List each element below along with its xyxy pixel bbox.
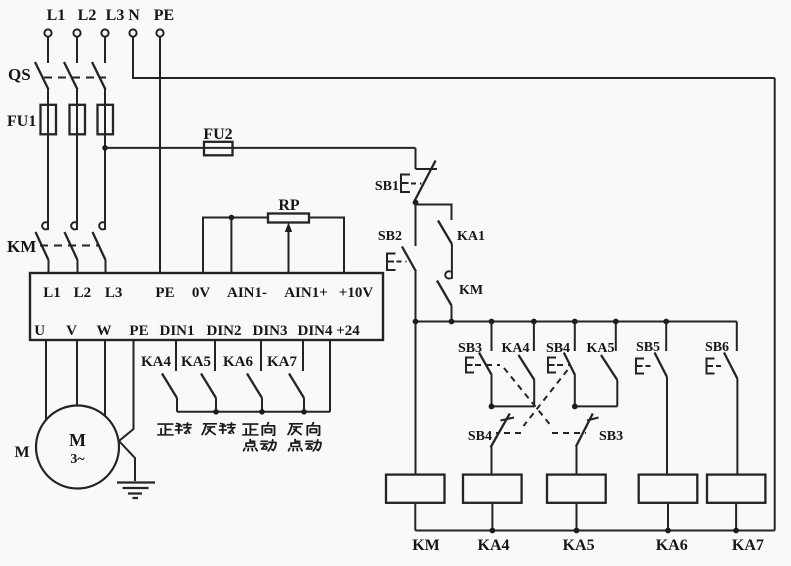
pushbutton SB5 blade (NO) (655, 353, 668, 378)
svg-text:KA5: KA5 (181, 354, 211, 370)
wire KM coil branch (415, 322, 417, 475)
wire KM pole 1 to box (48, 260, 50, 273)
contactor KM pole 3 fixed contact arc (99, 222, 104, 229)
junction bus at KA5 (613, 319, 619, 325)
SB3 interlock dashed link horizontal (475, 364, 500, 366)
svg-text:AIN1+: AIN1+ (284, 285, 328, 301)
node L1 supply terminal (44, 29, 51, 36)
wire L3 terminal to QS (104, 37, 106, 63)
svg-text:QS: QS (8, 65, 31, 84)
ground symbol (117, 483, 155, 499)
RP wiper arrow head (285, 223, 292, 233)
svg-text:SB4: SB4 (468, 429, 492, 444)
svg-text:L3: L3 (106, 7, 125, 24)
wire RP wiper to AIN1+ terminal (288, 231, 290, 273)
wire SB1 to SB2 (415, 203, 417, 247)
SB4 interlock dashed tail (496, 432, 521, 434)
wire SB3 NC to KA5 coil (576, 447, 578, 475)
junction below SB1 (413, 200, 419, 206)
svg-text:PE: PE (154, 7, 174, 24)
pushbutton SB4 NC lower blade (491, 414, 510, 448)
SB4 interlock dashed diagonal (524, 370, 568, 426)
wire KA4 coil to bottom line (491, 503, 493, 531)
label 反向 reverse (288, 424, 302, 435)
contactor KM pole 2 blade (65, 232, 78, 260)
wire L3 junction to FU2 to control rail (105, 147, 416, 149)
svg-text:PE: PE (129, 323, 148, 339)
svg-text:KA4: KA4 (478, 537, 510, 554)
wire PE bottom to motor frame and ground (119, 340, 135, 481)
wire KM coil to bottom line (414, 503, 416, 531)
wire SB3 to join node (491, 375, 493, 406)
pushbutton SB4 blade (NO) (564, 353, 575, 376)
SB4 interlock dashed link horizontal (557, 364, 570, 366)
wire control rail down to SB1 (415, 148, 417, 169)
wire KA4 contact to common (176, 398, 178, 412)
wire DIN3 stub (260, 340, 262, 371)
svg-text:RP: RP (278, 197, 300, 214)
pushbutton SB2 actuator E (387, 254, 396, 271)
svg-text:FU2: FU2 (203, 126, 232, 143)
wire SB3 stub (491, 322, 493, 352)
wire SB4 to join node (574, 375, 576, 406)
pushbutton SB4 actuator E (548, 358, 556, 373)
contact KA4 blade (162, 374, 177, 399)
wire V to motor (76, 340, 78, 406)
fuse FU1 pole 3 (98, 105, 114, 135)
pushbutton SB1 fixed contact bar (416, 168, 438, 170)
pushbutton SB3 actuator E (466, 358, 474, 373)
contact KA6 blade (247, 374, 262, 399)
junction KA6 coil on bottom line (665, 528, 671, 534)
wire through FU1 pole 2 to KM (76, 105, 78, 230)
svg-text:SB2: SB2 (378, 229, 402, 244)
motor M 3~ (36, 406, 119, 489)
wire SB6 to KA7 coil (736, 379, 738, 475)
svg-text:L2: L2 (74, 285, 92, 301)
junction bus at KA4 (531, 319, 537, 325)
svg-text:KA4: KA4 (502, 341, 530, 356)
node N supply terminal (129, 29, 136, 36)
pushbutton SB1 actuator E (401, 175, 410, 193)
wire QS to FU1 pole 1 (47, 90, 49, 106)
wire U to motor (45, 340, 47, 420)
pushbutton SB6 blade (NO) (724, 353, 737, 379)
svg-text:SB6: SB6 (705, 340, 729, 355)
SB6 actuator dashed link (716, 365, 725, 367)
wire bottom return line (415, 530, 774, 532)
junction bus at KM aux (449, 319, 455, 325)
wire KA7 coil to bottom line (735, 503, 737, 531)
svg-text:KA5: KA5 (587, 341, 615, 356)
contactor KM aux blade (437, 281, 452, 306)
junction RP left wire to AIN1- (229, 215, 235, 221)
junction KA7 coil on bottom line (733, 528, 739, 534)
contact KA7 blade (289, 374, 304, 399)
svg-text:KA1: KA1 (457, 229, 485, 244)
junction bus at SB5 (663, 319, 669, 325)
wire KA5 contact to common (215, 398, 217, 412)
svg-text:SB5: SB5 (636, 340, 660, 355)
svg-text:SB4: SB4 (546, 341, 570, 356)
wire KA6 contact to common (261, 398, 263, 412)
wire SB2 to bus (415, 272, 417, 322)
QS linkage dashed line (44, 77, 106, 79)
SB1 actuator dashed link (411, 183, 422, 185)
wire DIN2 stub (214, 340, 216, 371)
wire branch to KA1 (416, 205, 452, 221)
coil KM (386, 475, 445, 503)
svg-text:L3: L3 (105, 285, 123, 301)
svg-text:M: M (14, 444, 29, 461)
svg-text:DIN1: DIN1 (159, 323, 194, 339)
svg-text:L2: L2 (78, 7, 97, 24)
wire W to motor (104, 340, 106, 416)
svg-text:KA5: KA5 (563, 537, 595, 554)
contact KA1 blade (438, 221, 452, 245)
junction KA4 coil on bottom line (490, 528, 496, 534)
wire PE terminal down to converter box (159, 37, 161, 273)
contact KA5 blade (201, 374, 216, 399)
contact KA5 parallel blade (601, 355, 617, 380)
pushbutton SB6 actuator E (707, 359, 715, 374)
svg-text:KM: KM (459, 283, 483, 298)
junction bus at SB4 (572, 319, 578, 325)
wire N terminal down and across to right rail (133, 37, 775, 78)
wire join SB4-KA5 (575, 405, 618, 407)
svg-text:DIN4: DIN4 (297, 323, 333, 339)
wire KA1 to KM aux (451, 244, 453, 279)
svg-text:SB3: SB3 (599, 429, 623, 444)
wire RP left end to 0V terminal (203, 218, 268, 274)
label 反转 reverse run (202, 424, 216, 435)
wire KM aux to bus (451, 306, 453, 322)
wire KA5 to join node (616, 380, 618, 406)
contactor KM pole 3 blade (93, 232, 106, 260)
switch QS pole 2 blade (64, 62, 78, 90)
svg-text:FU1: FU1 (7, 113, 36, 130)
svg-text:KA7: KA7 (267, 354, 298, 370)
SB5 actuator dashed link (646, 365, 655, 367)
SB3 NC fixed contact bar (587, 418, 599, 421)
wire KA6 coil to bottom line (667, 503, 669, 531)
wire QS to FU1 pole 3 (104, 90, 106, 106)
svg-text:V: V (66, 323, 77, 339)
potentiometer RP body (268, 214, 309, 223)
contactor KM pole 1 fixed contact arc (42, 222, 47, 229)
svg-text:KM: KM (7, 237, 36, 256)
svg-text:0V: 0V (192, 285, 211, 301)
coil KA4 (463, 475, 522, 503)
svg-text:SB1: SB1 (375, 179, 399, 194)
converter box U1 (30, 273, 383, 340)
wire N right rail down (774, 78, 776, 531)
junction KA5 contact on common (213, 409, 219, 415)
junction SB4-KA5 node (572, 404, 578, 410)
wire contact common to +24 (177, 411, 330, 413)
svg-text:L1: L1 (47, 7, 66, 24)
SB3 interlock dashed diagonal (504, 368, 552, 427)
junction KA5 coil on bottom line (574, 528, 580, 534)
wire L1 terminal to QS (47, 37, 49, 63)
contact KA4 parallel blade (519, 355, 535, 380)
contactor KM pole 1 blade (36, 232, 49, 260)
wire join SB3-KA4 (492, 405, 535, 407)
node L3 supply terminal (101, 29, 108, 36)
SB3 interlock dashed tail (552, 432, 586, 434)
wire QS to FU1 pole 2 (76, 90, 78, 106)
svg-text:KA7: KA7 (732, 537, 764, 554)
switch QS pole 1 blade (35, 62, 49, 90)
pushbutton SB3 blade (NO) (479, 353, 492, 376)
svg-text:DIN3: DIN3 (252, 323, 287, 339)
svg-text:KM: KM (412, 537, 440, 554)
svg-text:KA6: KA6 (656, 537, 688, 554)
wire KA4 stub (533, 322, 535, 352)
pushbutton SB5 actuator E (636, 359, 644, 374)
junction L3 to FU2 branch (102, 145, 108, 151)
junction KA6 contact on common (259, 409, 265, 415)
wire through FU1 pole 3 to KM (104, 105, 106, 230)
fuse FU1 pole 2 (70, 105, 86, 135)
wire SB5 stub (665, 322, 667, 352)
node PE supply terminal (156, 29, 163, 36)
coil KA5 (547, 475, 606, 503)
coil KA7 (707, 475, 765, 503)
contactor KM pole 2 fixed contact arc (71, 222, 76, 229)
svg-text:PE: PE (155, 285, 174, 301)
pushbutton SB1 blade (NC) (415, 161, 436, 201)
svg-text:N: N (128, 7, 140, 24)
svg-text:W: W (97, 323, 112, 339)
wire RP right end to +10V terminal (309, 218, 344, 274)
SB4 NC fixed contact bar (501, 418, 515, 421)
svg-text:AIN1-: AIN1- (227, 285, 267, 301)
label 点动 jog (reverse) (289, 439, 303, 450)
wire SB6 stub (bus end corner) (736, 322, 738, 352)
svg-text:KA6: KA6 (223, 354, 254, 370)
svg-text:DIN2: DIN2 (206, 323, 241, 339)
svg-text:U: U (34, 323, 45, 339)
svg-text:+24: +24 (336, 323, 360, 339)
wire SB4 stub (574, 322, 576, 352)
svg-text:KA4: KA4 (141, 354, 172, 370)
junction bus at KM coil branch (413, 319, 419, 325)
node L2 supply terminal (73, 29, 80, 36)
wire KM pole 3 to box (105, 260, 107, 273)
junction bus at SB3 (489, 319, 495, 325)
label 正向 forward (243, 424, 258, 435)
coil KA6 (639, 475, 698, 503)
wire control bus (416, 321, 737, 323)
wire +24 down to contact common (329, 340, 331, 412)
wire KA4 to join node (533, 380, 535, 406)
junction KA7 contact on common (301, 409, 307, 415)
wire AIN1- terminal up to RP left wire (230, 218, 232, 274)
svg-text:M: M (69, 430, 86, 450)
contactor KM aux fixed contact arc (445, 271, 450, 278)
wire SB5 to KA6 coil (666, 377, 668, 475)
fuse FU1 pole 1 (41, 105, 57, 135)
wire SB4 NC to KA4 coil (491, 447, 493, 475)
junction SB3-KA4 node (489, 404, 495, 410)
SB2 actuator dashed link (397, 261, 407, 263)
label 正转 forward run (158, 424, 173, 435)
wire DIN1 stub (175, 340, 177, 371)
wire KA5 coil to bottom line (576, 503, 578, 531)
label 点动 jog (forward) (244, 439, 258, 450)
svg-text:+10V: +10V (339, 285, 374, 301)
wire L2 terminal to QS (76, 37, 78, 63)
pushbutton SB2 blade (NO) (402, 247, 416, 272)
wire KA5 stub (615, 322, 617, 352)
wire KA7 contact to common (303, 398, 305, 412)
wire DIN4 stub (302, 340, 304, 371)
switch QS pole 3 blade (92, 62, 106, 90)
KM linkage dashed line (40, 245, 98, 247)
svg-text:L1: L1 (43, 285, 61, 301)
pushbutton SB3 NC lower blade (576, 414, 593, 447)
wire through FU1 pole 1 to KM (47, 105, 49, 230)
svg-text:3~: 3~ (70, 452, 85, 467)
fuse FU2 (204, 142, 233, 156)
wire KM pole 2 to box (77, 260, 79, 273)
